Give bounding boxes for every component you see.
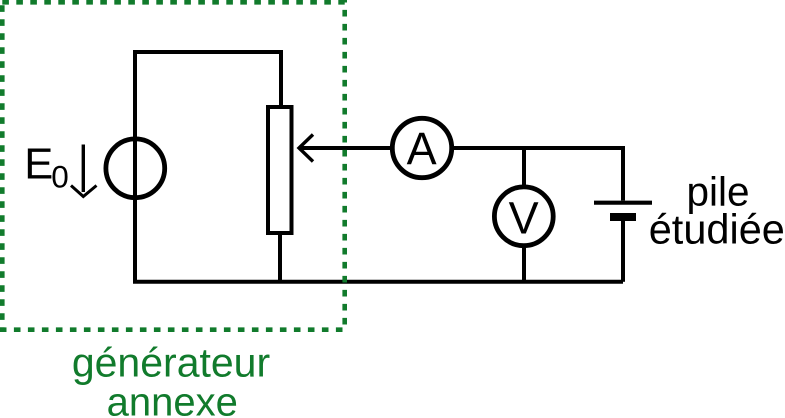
battery plate short (-) <box>610 213 636 221</box>
ammeter A <box>392 118 451 177</box>
wiper arrow wire <box>299 135 390 162</box>
svg-text:V: V <box>509 193 539 244</box>
arrow (E0 polarity) <box>71 145 97 197</box>
svg-text:étudiée: étudiée <box>649 206 785 253</box>
svg-text:A: A <box>407 123 437 174</box>
dashed box (générateur annexe enclosure) <box>2 2 344 329</box>
svg-text:E: E <box>24 141 53 189</box>
source E0 <box>106 139 165 198</box>
potentiometer R <box>268 107 292 282</box>
svg-text:annexe: annexe <box>107 381 238 418</box>
wire: left branch + top wire + down to potentiometer top <box>135 52 281 282</box>
wire: voltmeter bottom <box>522 248 526 282</box>
voltmeter V <box>494 187 553 246</box>
svg-text:générateur: générateur <box>72 340 270 386</box>
wire: battery bottom <box>621 221 625 282</box>
wire: bottom rail <box>133 280 623 284</box>
svg-text:0: 0 <box>51 159 69 195</box>
battery plate long (+) <box>594 201 652 205</box>
wire: voltmeter top <box>522 148 526 185</box>
wire: ammeter to battery top <box>454 148 623 201</box>
